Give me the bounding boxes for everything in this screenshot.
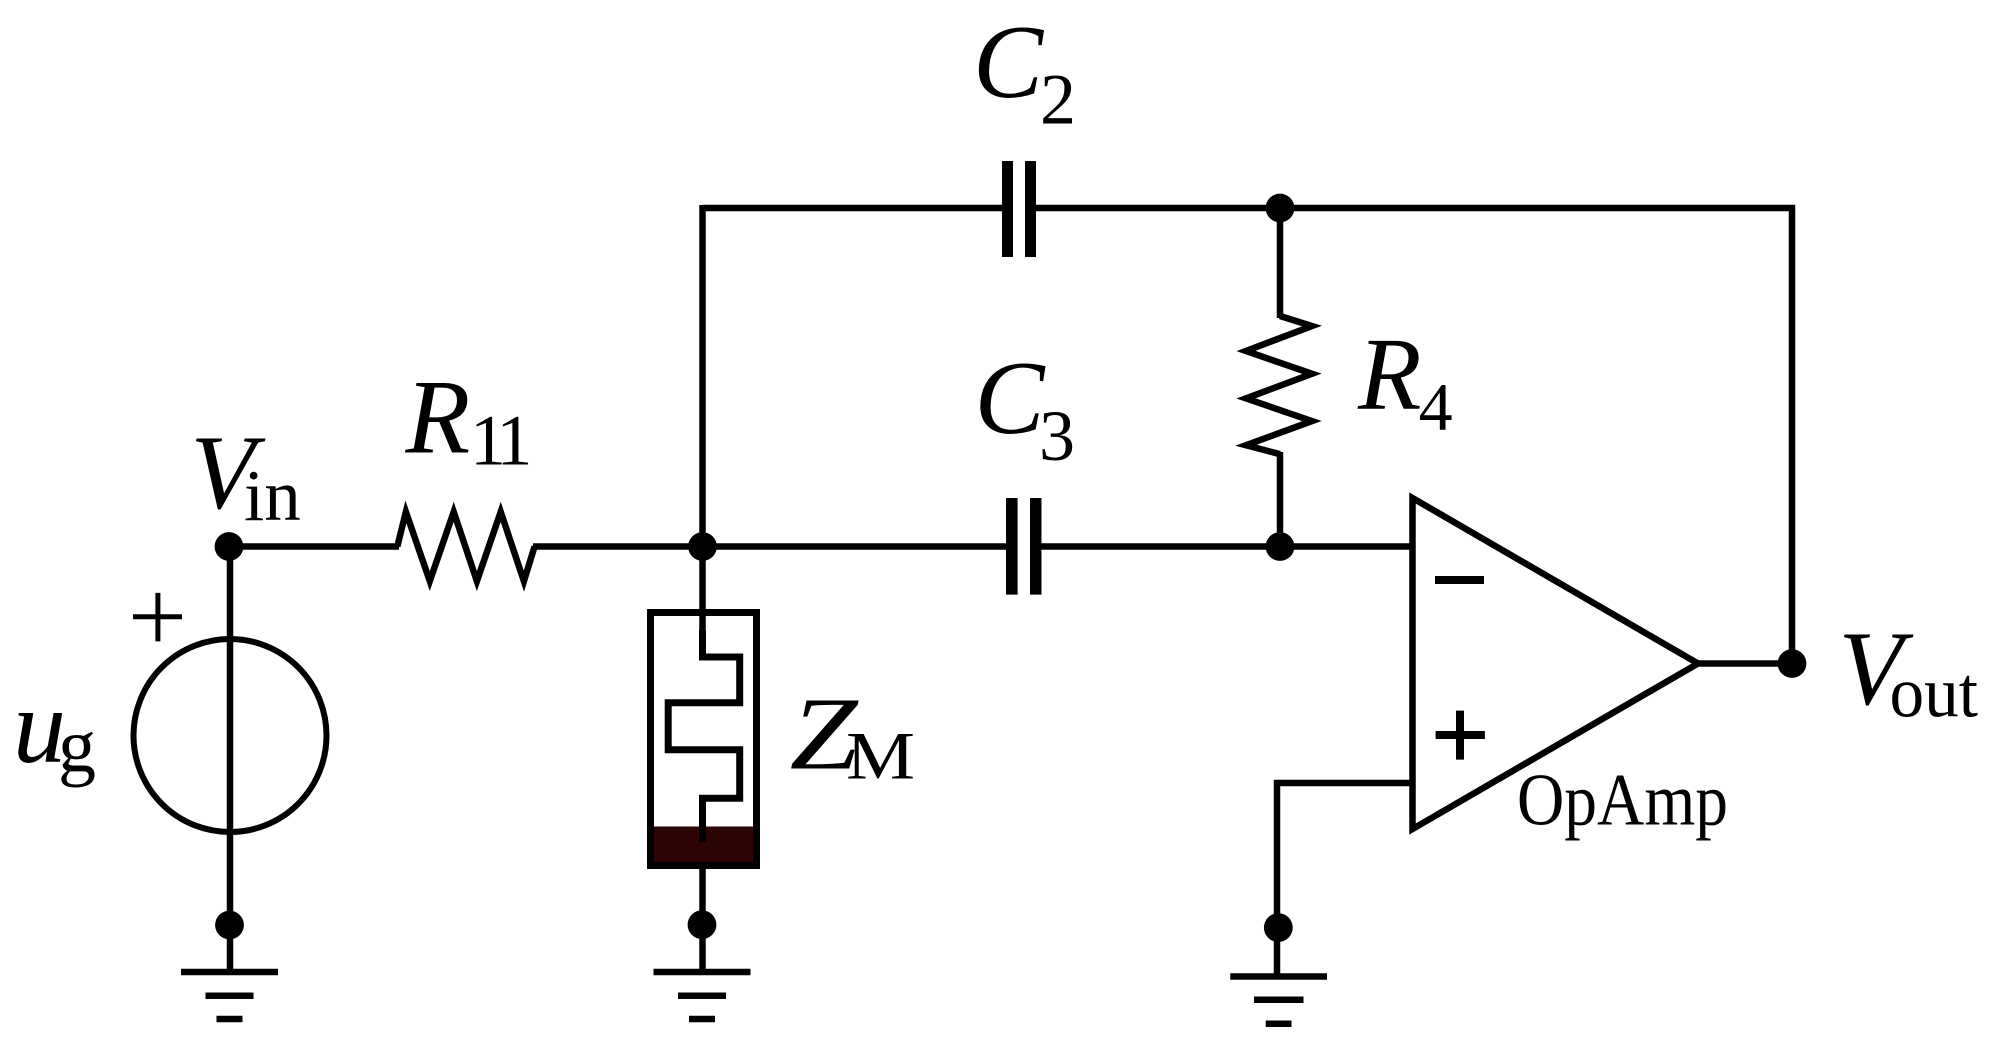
svg-text:OpAmp: OpAmp (1517, 760, 1728, 842)
svg-text:g: g (58, 704, 96, 788)
svg-text:3: 3 (1039, 396, 1075, 476)
svg-text:C: C (975, 339, 1047, 456)
svg-text:R: R (405, 358, 471, 475)
svg-text:out: out (1890, 653, 1979, 733)
svg-text:C: C (973, 3, 1045, 120)
svg-text:M: M (846, 718, 915, 794)
svg-text:11: 11 (470, 401, 528, 481)
svg-text:in: in (244, 455, 301, 536)
svg-text:4: 4 (1419, 369, 1453, 445)
svg-text:2: 2 (1040, 59, 1076, 139)
svg-text:R: R (1357, 317, 1422, 432)
